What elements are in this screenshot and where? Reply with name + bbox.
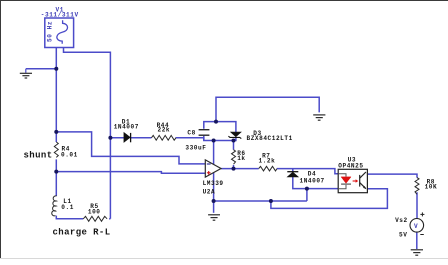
- wire comparator power vertical: [213, 141, 215, 213]
- svg-text:BZX84C12LT1: BZX84C12LT1: [247, 135, 293, 142]
- svg-text:1k: 1k: [237, 155, 245, 162]
- resistor R5: [83, 216, 107, 221]
- opto LED: [341, 177, 351, 184]
- V1 sine wave: [57, 20, 68, 44]
- resistor R4: [54, 142, 58, 157]
- wire V1 right lead to right bus: [64, 48, 111, 219]
- node D1 tap: [108, 136, 112, 140]
- svg-text:shunt: shunt: [24, 151, 53, 161]
- svg-text:1.2k: 1.2k: [259, 158, 276, 165]
- optocoupler U3 OP4N25: [338, 169, 367, 192]
- wire D1 row: [110, 138, 203, 141]
- wire output row: [221, 169, 338, 174]
- AC source V1 box: [45, 18, 74, 48]
- wire C8 D3 top loop: [204, 122, 236, 133]
- wire opto pin5 to R8: [367, 174, 417, 178]
- wire top rail to ground: [216, 97, 319, 121]
- wire lower detour to opto pin4: [271, 189, 388, 209]
- svg-text:10K: 10K: [425, 183, 438, 190]
- wire minus input path: [56, 132, 205, 164]
- resistor R44: [151, 135, 176, 140]
- svg-text:1N4007: 1N4007: [114, 123, 139, 130]
- svg-text:V: V: [414, 223, 418, 230]
- zener diode D3: [228, 132, 241, 138]
- svg-text:LM339: LM339: [203, 180, 224, 187]
- node rail A left: [212, 199, 216, 203]
- node R6 output: [232, 167, 236, 171]
- node rail A branch: [269, 199, 273, 203]
- inductor L1: [52, 196, 57, 216]
- diode D1: [124, 133, 131, 143]
- wire V1 left lead down: [55, 47, 57, 143]
- wire R4 bottom to plus junction: [55, 159, 57, 196]
- source Vs2: [410, 219, 424, 233]
- svg-text:1N4007: 1N4007: [300, 178, 325, 185]
- svg-text:U2A: U2A: [203, 189, 216, 196]
- opto pin leads inside: [338, 174, 346, 189]
- svg-text:0.01: 0.01: [61, 151, 78, 158]
- node minus tap: [54, 130, 58, 134]
- capacitor C8: [199, 130, 210, 136]
- opto arrow: [353, 179, 359, 182]
- svg-text:330uF: 330uF: [185, 145, 206, 152]
- svg-text:50 Hz: 50 Hz: [47, 21, 54, 42]
- wire R8 bottom to Vs2: [416, 192, 418, 218]
- svg-text:5V: 5V: [399, 232, 407, 239]
- wire D4 anode to junction: [293, 177, 307, 189]
- wire R5 right to bus: [109, 218, 110, 220]
- wire Vs2 bottom to ground: [416, 232, 418, 249]
- wire D4 junction down to rail A: [306, 189, 308, 201]
- wire L1 bottom to R5: [56, 216, 83, 219]
- ground (top right): [313, 115, 325, 120]
- wire opto pin1 lower-left: [307, 188, 338, 190]
- svg-text:charge R-L: charge R-L: [53, 228, 111, 238]
- ground (below comparator): [208, 215, 220, 220]
- node plus tap: [54, 170, 58, 174]
- svg-text:22k: 22k: [158, 126, 171, 133]
- ground (top left): [20, 69, 32, 78]
- op-amp comparator U2A LM339: [205, 160, 221, 177]
- wire plus input path: [56, 172, 205, 174]
- wire D4 top lead: [292, 169, 294, 172]
- wire R6 top lead: [233, 141, 235, 150]
- svg-text:100: 100: [88, 209, 101, 216]
- ground (bottom right): [411, 250, 423, 255]
- resistor R8: [415, 178, 419, 195]
- svg-text:-311/311V: -311/311V: [41, 12, 79, 19]
- wire ground tap left: [26, 68, 57, 70]
- node top rail tap: [214, 120, 218, 124]
- wire rail A: [214, 200, 307, 202]
- node D4 opto: [305, 187, 309, 191]
- svg-text:C8: C8: [187, 130, 195, 137]
- svg-text:D4: D4: [308, 170, 316, 177]
- node D3 R6: [232, 139, 236, 143]
- wire R6 bottom lead: [233, 165, 235, 169]
- resistor R7: [259, 166, 277, 171]
- opto phototransistor: [360, 172, 366, 189]
- svg-text:Vs2: Vs2: [395, 217, 408, 224]
- svg-text:0.1: 0.1: [61, 204, 74, 211]
- svg-text:OP4N25: OP4N25: [338, 163, 363, 170]
- diode D4: [287, 172, 298, 177]
- resistor R6: [232, 150, 236, 164]
- node C8 bottom rail left: [212, 139, 216, 143]
- wire C8 bottom lead and bottom rail: [204, 136, 236, 141]
- node ground tap: [54, 67, 58, 71]
